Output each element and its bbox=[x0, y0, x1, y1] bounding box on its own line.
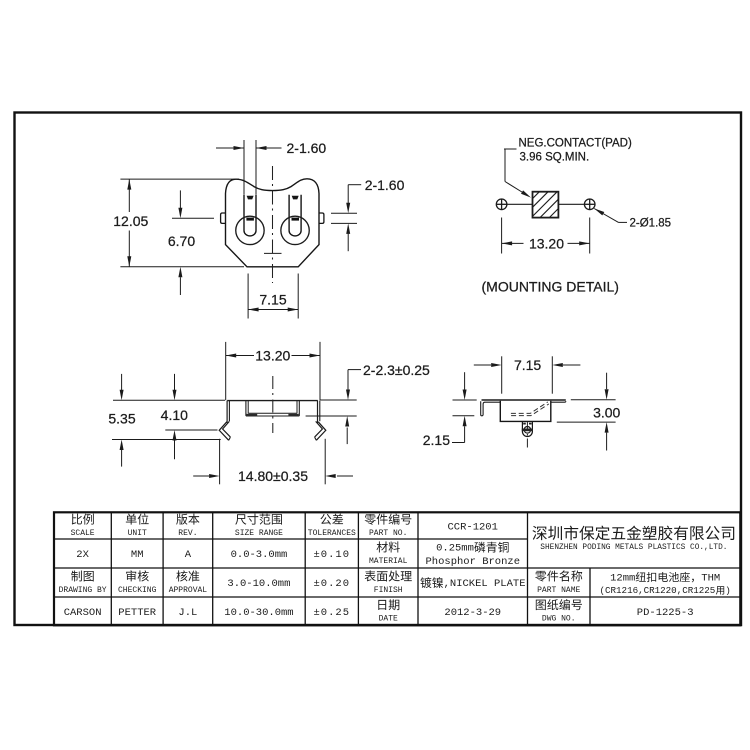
dimension 2-1.60 tab arrows and leader bbox=[347, 185, 349, 203]
front view left slot top marker bbox=[247, 196, 254, 200]
dimension 14.80 arrows and text bbox=[193, 475, 209, 477]
mounting detail left pad circle bbox=[496, 199, 507, 210]
svg-text:3.00: 3.00 bbox=[593, 405, 620, 421]
svg-text:DWG NO.: DWG NO. bbox=[542, 615, 576, 624]
hatch lines bbox=[533, 192, 540, 199]
svg-text:SCALE: SCALE bbox=[71, 529, 95, 538]
svg-text:2X: 2X bbox=[76, 549, 89, 561]
dimension 2.15 extension lines bbox=[453, 399, 477, 401]
front view right mounting tab bbox=[319, 213, 324, 223]
svg-text:6.70: 6.70 bbox=[168, 233, 195, 249]
svg-text:MM: MM bbox=[131, 549, 144, 561]
svg-text:12mm: 12mm bbox=[610, 573, 635, 585]
svg-text:2-1.60: 2-1.60 bbox=[365, 177, 405, 193]
dimension 3.00 arrows and text bbox=[606, 373, 608, 390]
side view contact feet bbox=[246, 414, 257, 417]
dimension 7.15 extension lines end view bbox=[501, 356, 503, 393]
dimension 7.15 line arrows and text front view bbox=[248, 309, 298, 311]
table cell DWG NO label bbox=[536, 599, 582, 610]
end view top plate with flanges bbox=[482, 399, 566, 401]
front view vertical center line bbox=[272, 166, 274, 283]
dimension 13.20 line arrows and text side view bbox=[226, 355, 254, 357]
dimension 2.15 arrows leader and text bbox=[464, 372, 466, 389]
svg-text:APPROVAL: APPROVAL bbox=[169, 586, 208, 595]
svg-text:TOLERANCES: TOLERANCES bbox=[308, 529, 356, 538]
svg-text:DATE: DATE bbox=[379, 615, 398, 624]
svg-text:2012-3-29: 2012-3-29 bbox=[444, 607, 501, 619]
svg-text:Phosphor Bronze: Phosphor Bronze bbox=[426, 556, 521, 568]
table cell DRAWING BY label bbox=[71, 570, 94, 581]
table cell finish value nickel plate bbox=[420, 577, 443, 588]
dimension 4.10 extension line bbox=[165, 429, 217, 431]
front view left contact circle bbox=[236, 216, 264, 244]
end view bottom pin bbox=[522, 421, 532, 436]
svg-text:(CR1216,CR1220,CR1225: (CR1216,CR1220,CR1225 bbox=[600, 585, 716, 596]
table cell TOLERANCES label bbox=[320, 514, 343, 525]
svg-text:±0.20: ±0.20 bbox=[314, 578, 351, 590]
dimension 5.35 arrows and text bbox=[121, 374, 123, 390]
end view main body rectangle bbox=[500, 401, 551, 422]
svg-text:): ) bbox=[725, 585, 731, 596]
svg-text:0.25mm: 0.25mm bbox=[436, 543, 474, 555]
svg-text:±0.25: ±0.25 bbox=[314, 607, 351, 619]
side view left bend bbox=[226, 401, 228, 423]
svg-text:REV.: REV. bbox=[178, 529, 197, 538]
svg-text:PETTER: PETTER bbox=[118, 607, 157, 619]
front view body outline bbox=[226, 179, 320, 267]
table cell PART NO label bbox=[365, 514, 412, 525]
table cell FINISH label bbox=[365, 570, 412, 581]
front view left slot middle marker bbox=[246, 218, 254, 221]
svg-text:PART NAME: PART NAME bbox=[537, 586, 580, 595]
table cell SIZE RANGE label bbox=[235, 514, 282, 525]
dimension 2-1.60 slot width arrows and text bbox=[216, 147, 244, 149]
svg-text:12.05: 12.05 bbox=[113, 213, 148, 229]
dimension 6.70 extension line bbox=[172, 217, 214, 219]
svg-text:13.20: 13.20 bbox=[255, 348, 290, 364]
table cell SCALE label bbox=[72, 514, 94, 525]
svg-text:CARSON: CARSON bbox=[64, 607, 102, 619]
svg-text:DRAWING BY: DRAWING BY bbox=[59, 586, 107, 595]
svg-text:10.0-30.0mm: 10.0-30.0mm bbox=[224, 607, 293, 619]
dimension 2-1.60 slot width extension lines bbox=[243, 140, 245, 195]
dimension 12.05 line arrows and text bbox=[128, 179, 130, 212]
mounting detail hatched contact pad square bbox=[533, 192, 559, 218]
dimension 14.80 extension lines bbox=[219, 439, 221, 485]
svg-text:2-Ø1.85: 2-Ø1.85 bbox=[630, 218, 672, 230]
svg-text:SHENZHEN PODING METALS PLASTIC: SHENZHEN PODING METALS PLASTICS CO.,LTD. bbox=[540, 544, 727, 552]
svg-text:CCR-1201: CCR-1201 bbox=[448, 521, 498, 533]
svg-text:7.15: 7.15 bbox=[514, 357, 541, 373]
end view left flange bend bbox=[481, 401, 501, 416]
dimension 7.15 arrows and text end view bbox=[474, 364, 491, 366]
front view right slot middle marker bbox=[292, 218, 300, 221]
svg-text:3.96 SQ.MIN.: 3.96 SQ.MIN. bbox=[520, 152, 590, 164]
dimension 2-1.60 tab height extension lines bbox=[331, 212, 357, 214]
svg-text:FINISH: FINISH bbox=[374, 586, 403, 595]
side view left spring hook bbox=[219, 422, 229, 441]
title block column lines bbox=[110, 512, 112, 625]
dimension 13.20 arrows and text mounting bbox=[502, 242, 524, 244]
svg-text:J.L: J.L bbox=[178, 607, 197, 619]
table cell PART NAME label bbox=[535, 570, 582, 581]
side view right bend bbox=[317, 401, 319, 423]
svg-text:UNIT: UNIT bbox=[128, 529, 147, 538]
dimension 3.00 extension lines bbox=[571, 399, 616, 401]
title block outer border bbox=[54, 512, 740, 625]
front view left contact slot bbox=[244, 195, 256, 236]
svg-text:±0.10: ±0.10 bbox=[314, 549, 351, 561]
table cell REV label bbox=[176, 514, 199, 525]
dimension 13.20 extension lines side view bbox=[225, 342, 227, 400]
dimension 13.20 extension lines mounting bbox=[501, 218, 503, 254]
dimension 6.70 arrows and text bbox=[179, 190, 181, 208]
svg-text:4.10: 4.10 bbox=[161, 407, 188, 423]
drawing frame bbox=[15, 113, 742, 626]
svg-text:PART NO.: PART NO. bbox=[369, 529, 407, 538]
front view right slot top marker bbox=[292, 196, 299, 200]
svg-text:(MOUNTING DETAIL): (MOUNTING DETAIL) bbox=[482, 279, 619, 295]
title block row lines bbox=[54, 538, 528, 540]
svg-text:2-2.3±0.25: 2-2.3±0.25 bbox=[363, 362, 430, 378]
table cell UNIT label bbox=[126, 514, 149, 525]
dimension 4.10 arrows and text bbox=[174, 374, 176, 390]
front view center cross tick bbox=[264, 252, 282, 254]
svg-text:7.15: 7.15 bbox=[259, 292, 286, 308]
svg-text:5.35: 5.35 bbox=[108, 410, 135, 426]
side view top plate bbox=[227, 400, 318, 402]
svg-text:,NICKEL PLATE: ,NICKEL PLATE bbox=[444, 578, 526, 590]
svg-text:MATERIAL: MATERIAL bbox=[369, 557, 408, 566]
table cell DATE label bbox=[378, 599, 399, 610]
table cell company name bbox=[532, 526, 734, 541]
svg-text:A: A bbox=[185, 549, 192, 561]
svg-text:SIZE RANGE: SIZE RANGE bbox=[235, 529, 283, 538]
svg-text:PD-1225-3: PD-1225-3 bbox=[637, 607, 694, 619]
end view right flange bbox=[551, 401, 566, 402]
leader 2-DIA1.85 callout bbox=[594, 209, 604, 216]
front view right contact slot bbox=[289, 195, 301, 236]
wire square to right pad bbox=[558, 203, 584, 205]
svg-text:13.20: 13.20 bbox=[529, 236, 564, 252]
svg-text:NEG.CONTACT(PAD): NEG.CONTACT(PAD) bbox=[519, 137, 632, 149]
side view right spring hook bbox=[316, 422, 326, 441]
svg-text:THM: THM bbox=[701, 573, 720, 585]
end view center line bbox=[526, 422, 528, 448]
svg-text:2.15: 2.15 bbox=[423, 432, 450, 448]
dimension 7.15 extension lines front view bbox=[247, 274, 249, 319]
wire left pad to square bbox=[507, 203, 533, 205]
side view recessed channel bbox=[245, 401, 247, 416]
svg-text:14.80±0.35: 14.80±0.35 bbox=[238, 468, 308, 484]
svg-text:2-1.60: 2-1.60 bbox=[287, 140, 327, 156]
table cell MATERIAL label bbox=[377, 541, 400, 552]
table cell CHECKING label bbox=[126, 570, 149, 581]
svg-text:3.0-10.0mm: 3.0-10.0mm bbox=[227, 578, 290, 590]
end view pin top markers bbox=[523, 423, 526, 425]
side view center line bbox=[272, 376, 274, 433]
end view hidden spring dashed lines bbox=[511, 402, 548, 414]
end view rivet circle bbox=[524, 427, 531, 434]
dimension 2-2.3 extension lines bbox=[320, 399, 356, 401]
dimension 12.05 extension lines bbox=[120, 178, 239, 180]
dimension 5.35 extension line bbox=[112, 439, 221, 441]
mounting detail right pad circle bbox=[584, 199, 595, 210]
leader NEG.CONTACT callout bbox=[504, 148, 517, 150]
svg-text:CHECKING: CHECKING bbox=[118, 586, 157, 595]
table cell APPROVAL label bbox=[176, 570, 199, 581]
svg-text:0.0-3.0mm: 0.0-3.0mm bbox=[231, 549, 288, 561]
front view left mounting tab bbox=[221, 213, 226, 223]
dimension 2-2.3 leader arrows and text bbox=[347, 370, 349, 390]
front view right contact circle bbox=[281, 216, 309, 244]
